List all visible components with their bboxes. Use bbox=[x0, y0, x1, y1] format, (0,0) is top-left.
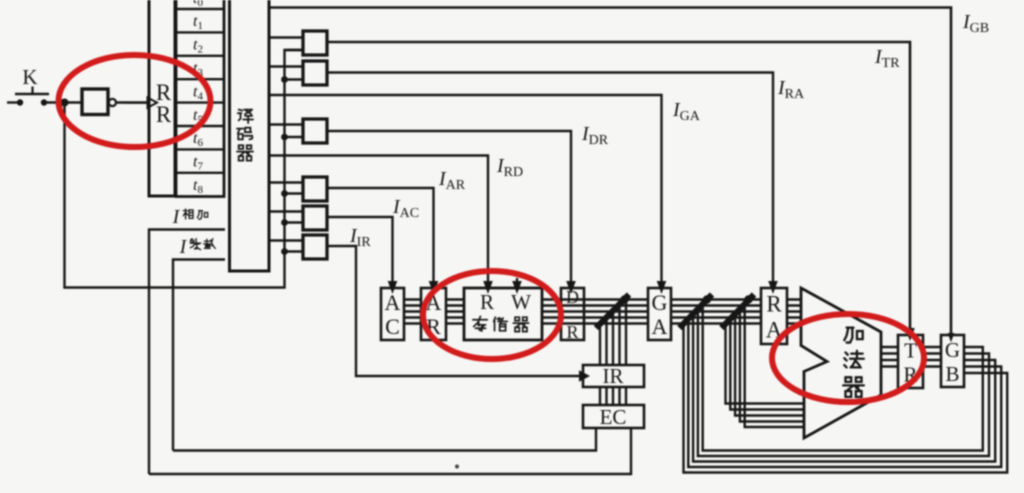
svg-text:EC: EC bbox=[600, 405, 627, 429]
svg-text:D: D bbox=[566, 287, 579, 307]
svg-text:C: C bbox=[385, 314, 400, 339]
svg-text:R: R bbox=[156, 102, 172, 127]
svg-text:T: T bbox=[904, 338, 917, 362]
svg-text:R: R bbox=[766, 292, 782, 317]
svg-text:G: G bbox=[945, 338, 960, 362]
svg-text:R: R bbox=[480, 290, 494, 314]
svg-text:G: G bbox=[652, 290, 668, 315]
svg-text:IR: IR bbox=[603, 364, 624, 388]
svg-text:I: I bbox=[172, 206, 181, 228]
svg-text:A: A bbox=[652, 314, 668, 339]
svg-text:K: K bbox=[22, 65, 37, 89]
svg-text:R: R bbox=[566, 322, 578, 342]
svg-text:B: B bbox=[945, 362, 959, 386]
svg-text:W: W bbox=[511, 290, 531, 314]
svg-text:I: I bbox=[179, 236, 188, 258]
